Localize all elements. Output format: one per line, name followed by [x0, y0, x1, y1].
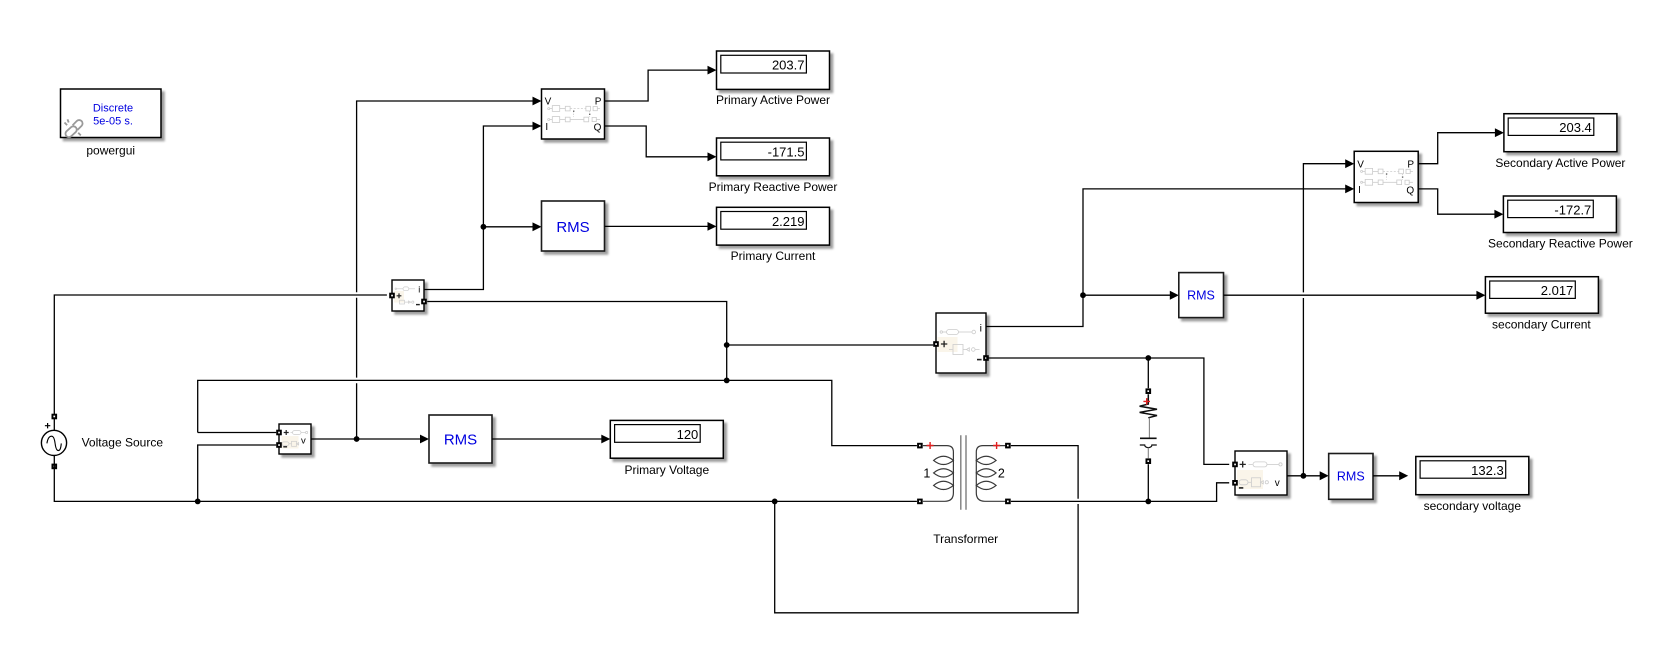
transformer port primary plus: [917, 443, 923, 449]
U1 V port label: [545, 97, 552, 108]
svg-text:1: 1: [923, 466, 930, 480]
powergui label: [86, 143, 135, 157]
power measurement U1 body: [542, 89, 605, 139]
transformer primary plus mark: [927, 442, 934, 449]
wire: i riser to RMS1: [483, 226, 533, 228]
wire: VM2 v output to RMS secondary voltage: [1287, 475, 1321, 477]
junction on v wire: [354, 436, 360, 442]
svg-text:132.3: 132.3: [1471, 463, 1504, 478]
svg-text:5e-05 s.: 5e-05 s.: [93, 116, 133, 128]
label Primary Reactive Power: [709, 180, 838, 194]
transformer secondary winding: [976, 446, 1007, 502]
svg-text:Transformer: Transformer: [933, 532, 998, 546]
CM2 internal icon: [940, 330, 979, 355]
VM1 internal icon: [282, 431, 308, 447]
svg-text:RMS: RMS: [444, 431, 477, 448]
voltage source top port: [52, 414, 58, 420]
transformer port secondary plus: [1005, 443, 1011, 449]
wire: primary hot rail y380: [198, 380, 727, 432]
VM1 minus port: [276, 442, 282, 448]
CM2 plus sign: [941, 341, 947, 347]
RMS secondary voltage block: [1329, 454, 1373, 500]
VM1 v output label: [301, 436, 306, 447]
wire: U2 Q to display Secondary Reactive Power: [1418, 189, 1495, 214]
wire: CM1 i signal riser: [424, 126, 534, 290]
wire: node F to transformer primary plus: [727, 380, 917, 445]
wire: source top riser to node A: [54, 295, 387, 431]
label secondary voltage: [1424, 499, 1522, 513]
arrow into U1 V input: [533, 97, 542, 106]
svg-text:2.219: 2.219: [772, 214, 805, 229]
svg-text:RMS: RMS: [556, 219, 589, 236]
wire: node F to CM2 plus: [727, 344, 934, 346]
transformer port primary minus: [917, 499, 923, 505]
arrow into secondary voltage display: [1399, 471, 1408, 480]
U1 internal icon: [548, 106, 600, 123]
label Primary Voltage: [624, 463, 709, 477]
arrow into U1 I input: [533, 122, 542, 131]
junction on ground rail at secondary loop: [772, 499, 778, 505]
arrow into U2 I input: [1345, 185, 1354, 194]
junction at RLC bottom: [1145, 499, 1151, 505]
VM1 plus port: [276, 430, 282, 436]
arrow into Primary Current display: [708, 222, 717, 231]
svg-text:RMS: RMS: [1187, 289, 1215, 303]
series RLC branch wire from node: [1147, 358, 1149, 388]
RMS secondary current block: [1179, 273, 1224, 318]
svg-text:Q: Q: [1406, 185, 1414, 196]
svg-text:RMS: RMS: [1337, 470, 1365, 484]
wire: riser to RMS secondary current: [1083, 294, 1171, 296]
voltage source AC1: [41, 430, 66, 455]
U1 P port label: [595, 97, 602, 108]
CM1 plus port: [389, 293, 395, 299]
CM1 minus port: [421, 299, 427, 305]
svg-text:203.7: 203.7: [772, 58, 805, 73]
display Primary Voltage: [610, 420, 723, 458]
svg-text:i: i: [980, 322, 982, 334]
svg-text:V: V: [545, 97, 552, 108]
svg-text:I: I: [1358, 185, 1361, 196]
wire: CM2 minus to VM2 plus: [986, 358, 1229, 464]
label Secondary Active Power: [1495, 156, 1625, 170]
powergui broken-link icon: [65, 119, 83, 137]
RLC top port: [1146, 388, 1152, 394]
voltage measurement VM1 body: [279, 424, 311, 454]
svg-text:powergui: powergui: [86, 143, 135, 157]
arrow into RMS secondary voltage: [1320, 471, 1329, 480]
display Secondary Active Power: [1504, 114, 1617, 152]
svg-text:2: 2: [998, 466, 1005, 480]
transformer winding number 2: [998, 466, 1005, 480]
U1 Q port label: [594, 123, 602, 134]
label Primary Current: [731, 249, 816, 263]
svg-text:Primary Reactive Power: Primary Reactive Power: [709, 180, 838, 194]
transformer label: [933, 532, 998, 546]
label Secondary Reactive Power: [1488, 237, 1633, 251]
U2 Q port label: [1406, 185, 1414, 196]
wire: VM1 v output to RMS primary voltage: [311, 438, 421, 440]
RLC plus mark: [1143, 398, 1150, 405]
wire: VM2 riser to U2 V input (gap at RMS3 wire crossing): [1303, 164, 1346, 476]
CM2 minus label: [977, 359, 982, 361]
CM1 internal icon: [395, 287, 415, 304]
VM2 plus port: [1232, 462, 1238, 468]
U2 P port label: [1407, 159, 1414, 170]
wire: ground rail from source bottom to transformer primary minus: [54, 456, 917, 502]
CM2 plus port: [933, 341, 939, 347]
svg-text:P: P: [595, 97, 602, 108]
U1 I port label: [545, 122, 548, 133]
CM1 minus label: [416, 304, 420, 306]
VM2 minus port: [1232, 480, 1238, 486]
voltage source bottom port: [52, 464, 58, 470]
display Primary Active Power: [717, 51, 830, 89]
svg-text:P: P: [1407, 159, 1414, 170]
VM2 v output label: [1275, 478, 1280, 489]
RLC bottom port: [1146, 458, 1152, 464]
arrow into Primary Active Power display: [708, 66, 717, 75]
svg-text:i: i: [418, 285, 420, 295]
display secondary Current: [1485, 277, 1598, 314]
display Primary Reactive Power: [717, 138, 830, 176]
wire: transformer secondary plus loop to ground rail: [775, 446, 1078, 613]
arrow into Primary Voltage display: [601, 435, 610, 444]
U2 I port label: [1358, 185, 1361, 196]
U2 V port label: [1357, 159, 1364, 170]
wire: U1 P to display Primary Active Power: [605, 70, 709, 101]
svg-text:-172.7: -172.7: [1554, 202, 1591, 217]
svg-text:I: I: [545, 122, 548, 133]
svg-text:Voltage Source: Voltage Source: [82, 435, 164, 449]
current measurement CM2 body: [936, 313, 986, 373]
display Secondary Reactive Power: [1503, 196, 1616, 233]
junction node F lower: [724, 378, 730, 384]
svg-text:secondary voltage: secondary voltage: [1424, 499, 1522, 513]
power measurement U2 body: [1354, 151, 1418, 202]
junction at RLC top feed: [1145, 355, 1151, 361]
display Primary Current: [717, 207, 830, 245]
voltage measurement VM2 body: [1235, 451, 1287, 495]
wire: RMS primary voltage to display: [492, 438, 603, 440]
current measurement CM1 body: [392, 280, 424, 311]
wire: RMS secondary current to display: [1224, 294, 1478, 296]
svg-text:203.4: 203.4: [1559, 120, 1592, 135]
voltage source plus sign: [45, 423, 50, 428]
junction on ground rail at VM1 riser: [195, 499, 201, 505]
svg-text:120: 120: [677, 427, 699, 442]
capacitor C1: [1140, 418, 1157, 458]
CM2 minus port: [983, 355, 989, 361]
wire: into VM1 plus: [198, 432, 277, 434]
RMS1 primary current block: [542, 201, 605, 251]
junction on i riser at RMS1: [481, 224, 487, 230]
VM2 plus sign: [1240, 461, 1246, 467]
label Primary Active Power: [716, 93, 830, 107]
wire: VM1 minus riser: [198, 445, 277, 501]
svg-text:v: v: [1275, 478, 1280, 489]
powergui block: [61, 89, 162, 138]
svg-text:V: V: [1357, 159, 1364, 170]
wire: CM1 minus to node F: [427, 302, 727, 381]
wire: RMS1 to display Primary Current: [605, 225, 708, 227]
resistor R1 zigzag: [1140, 394, 1157, 418]
arrow into RMS primary voltage: [420, 435, 429, 444]
RMS primary voltage block: [429, 415, 492, 463]
transformer winding number 1: [923, 466, 930, 480]
svg-text:Primary Voltage: Primary Voltage: [624, 463, 709, 477]
svg-text:Primary Active Power: Primary Active Power: [716, 93, 830, 107]
svg-text:v: v: [301, 436, 306, 447]
transformer core: [961, 435, 966, 509]
arrow into RMS secondary current: [1170, 291, 1179, 300]
svg-text:Discrete: Discrete: [93, 103, 133, 115]
svg-text:Q: Q: [594, 123, 602, 134]
wire: U2 P to display Secondary Active Power: [1418, 133, 1496, 164]
arrow into Secondary Reactive Power display: [1494, 210, 1503, 219]
wire: v riser to U1 V input (gaps at crossings): [357, 101, 534, 439]
svg-text:-171.5: -171.5: [768, 145, 805, 160]
wire: RMS secondary voltage to display: [1373, 475, 1400, 477]
svg-text:Secondary Reactive Power: Secondary Reactive Power: [1488, 237, 1633, 251]
arrow into Secondary Active Power display: [1495, 128, 1504, 137]
wire: CM2 i signal riser: [986, 189, 1346, 327]
svg-text:Secondary Active Power: Secondary Active Power: [1495, 156, 1625, 170]
junction on CM2 riser at RMS secondary current: [1080, 292, 1086, 298]
junction node F upper: [724, 342, 730, 348]
svg-text:Primary Current: Primary Current: [731, 249, 816, 263]
arrow into secondary Current display: [1476, 291, 1485, 300]
U2 internal icon: [1361, 168, 1413, 185]
label secondary Current: [1492, 317, 1591, 331]
CM2 i output label: [980, 322, 982, 334]
junction on VM2 output: [1301, 473, 1307, 479]
arrow into RMS1: [533, 222, 542, 231]
svg-text:2.017: 2.017: [1541, 283, 1574, 298]
VM2 internal icon: [1239, 462, 1282, 487]
display secondary voltage: [1416, 457, 1529, 495]
arrow into U2 V input: [1345, 159, 1354, 168]
transformer port secondary minus: [1005, 499, 1011, 505]
transformer secondary plus mark: [993, 442, 1000, 449]
wire: U1 Q to display Primary Reactive Power: [605, 126, 709, 157]
VM2 minus sign: [1239, 487, 1243, 489]
wire: RLC bottom to ground junction: [1147, 464, 1149, 501]
transformer primary winding: [923, 446, 954, 502]
CM1 i output label: [418, 285, 420, 295]
VM1 minus sign: [283, 446, 287, 448]
wire: transformer secondary minus to VM2 minus: [1011, 483, 1229, 502]
VM1 plus sign: [284, 430, 289, 435]
arrow into Primary Reactive Power display: [708, 152, 717, 161]
CM1 plus sign: [397, 293, 402, 298]
voltage source label: [82, 435, 164, 449]
svg-text:secondary Current: secondary Current: [1492, 317, 1591, 331]
